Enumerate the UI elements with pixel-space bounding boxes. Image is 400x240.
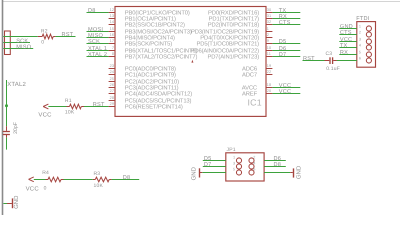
FTDI pin 2 xyxy=(359,31,372,37)
IC1 pin 12 PB0 xyxy=(109,8,190,16)
svg-text:8: 8 xyxy=(112,52,114,56)
svg-text:20: 20 xyxy=(267,89,272,93)
wire + net label SCK (IC left) xyxy=(87,39,109,45)
svg-text:27: 27 xyxy=(110,89,115,93)
wire + net label RST (right of R2) xyxy=(55,32,75,38)
svg-text:17: 17 xyxy=(110,39,115,43)
svg-text:3: 3 xyxy=(359,38,361,42)
supply VCC arrow (reset pullup) xyxy=(43,104,48,109)
wire + net label RX (FTDI) xyxy=(339,50,357,56)
svg-text:PD6(AIN0/OC0A/PCINT22): PD6(AIN0/OC0A/PCINT22) xyxy=(191,47,260,54)
svg-text:D8: D8 xyxy=(123,175,131,181)
value 0.1uF (C3) xyxy=(326,66,340,72)
IC1 pin 19 ADC6 xyxy=(242,64,272,72)
svg-text:D7: D7 xyxy=(279,52,287,58)
svg-text:1: 1 xyxy=(359,25,361,29)
wire + net label D8 (right of R3) xyxy=(112,175,140,181)
svg-text:VCC: VCC xyxy=(26,186,40,193)
IC1 pin 29 PC6 xyxy=(109,102,183,110)
IC1 pin 7 PB6 xyxy=(109,46,198,54)
svg-text:ADC6: ADC6 xyxy=(242,65,257,72)
svg-text:28: 28 xyxy=(110,96,115,100)
IC1 pin 14 PB2 xyxy=(109,20,185,28)
svg-text:20pF: 20pF xyxy=(13,122,19,134)
svg-text:7: 7 xyxy=(112,46,114,50)
ground GND (left of JP1) xyxy=(191,166,226,180)
svg-text:12: 12 xyxy=(110,8,115,12)
svg-text:C3: C3 xyxy=(326,51,333,57)
JP1 pin 3 xyxy=(233,162,242,169)
label R3 xyxy=(94,171,101,177)
svg-text:4: 4 xyxy=(359,44,361,48)
svg-text:PC4(ADC4/SDA/PCINT12): PC4(ADC4/SDA/PCINT12) xyxy=(125,90,192,97)
junction on XTAL2 wire xyxy=(5,104,8,107)
svg-text:9: 9 xyxy=(267,39,269,43)
IC1 pin 23 PC0 xyxy=(109,64,176,72)
svg-text:14: 14 xyxy=(110,20,115,24)
resistor R3 xyxy=(93,177,112,182)
FTDI pin 4 xyxy=(359,44,372,50)
svg-text:PB4(MISO/PCINT4): PB4(MISO/PCINT4) xyxy=(125,34,175,41)
wire RST net from ISP to R2 xyxy=(3,36,38,38)
JP1 pin 4 xyxy=(249,162,256,169)
svg-text:FTDI: FTDI xyxy=(356,16,369,22)
label R4 xyxy=(42,170,49,176)
svg-text:GND: GND xyxy=(13,195,20,209)
svg-text:11: 11 xyxy=(267,52,271,56)
svg-text:PC3(ADC3/PCINT11): PC3(ADC3/PCINT11) xyxy=(125,84,179,91)
svg-text:RST: RST xyxy=(303,56,315,62)
svg-text:PC5(ADC5/SCL/PCINT13): PC5(ADC5/SCL/PCINT13) xyxy=(125,97,192,104)
svg-text:ADC7: ADC7 xyxy=(242,71,257,78)
wire XTAL2 vertical xyxy=(6,80,8,126)
wire + net label MOSI (IC left) xyxy=(87,27,109,33)
IC1 pin 26 PC3 xyxy=(109,83,179,91)
wire + net label TX (FTDI) xyxy=(339,43,357,49)
svg-text:PD5(T1/OC0B/PCINT21): PD5(T1/OC0B/PCINT21) xyxy=(197,40,260,47)
svg-text:GND: GND xyxy=(191,166,198,180)
svg-text:23: 23 xyxy=(110,64,115,68)
JP1 pin 5 xyxy=(233,168,242,175)
svg-text:XTAL 2: XTAL 2 xyxy=(88,52,107,58)
svg-text:PD7(AIN1/PCINT23): PD7(AIN1/PCINT23) xyxy=(207,53,259,60)
capacitor C3 xyxy=(325,57,337,64)
net label XTAL2 xyxy=(7,81,26,88)
svg-text:10: 10 xyxy=(267,46,272,50)
svg-text:24: 24 xyxy=(110,70,115,74)
IC1 pin 20 AREF xyxy=(242,89,272,97)
wire + net label RST (to C3) xyxy=(303,56,325,62)
svg-text:D8: D8 xyxy=(274,162,282,168)
svg-text:PB3(MOSI/OC2A/PCINT3): PB3(MOSI/OC2A/PCINT3) xyxy=(125,28,192,35)
svg-text:D7: D7 xyxy=(204,162,212,168)
wire + net label XTAL 2 (IC left) xyxy=(87,52,109,58)
svg-text:PC2(ADC2/PCINT10): PC2(ADC2/PCINT10) xyxy=(125,78,179,85)
IC1 pin 13 PB1 xyxy=(109,14,176,22)
value 0 (R2) xyxy=(41,40,44,46)
svg-text:PC1(ADC1/PCINT9): PC1(ADC1/PCINT9) xyxy=(125,71,176,78)
wire C3 to FTDI pin 6 xyxy=(337,60,357,62)
svg-text:D8: D8 xyxy=(88,8,96,14)
svg-text:PD1(TXD/PCINT17): PD1(TXD/PCINT17) xyxy=(209,15,260,22)
resistor R1 xyxy=(67,104,85,109)
connector FTDI outline xyxy=(357,22,376,68)
wire + net label TX (IC right) xyxy=(272,8,300,14)
svg-text:PD4(T0/XCK/PCINT20): PD4(T0/XCK/PCINT20) xyxy=(200,34,259,41)
svg-text:13: 13 xyxy=(110,14,115,18)
wire from C2 down xyxy=(6,138,8,150)
connector JP1 outline xyxy=(226,153,264,181)
svg-text:MISO: MISO xyxy=(16,44,32,50)
IC1 pin 11 PD7 xyxy=(207,52,272,60)
svg-text:30: 30 xyxy=(267,8,272,12)
svg-text:PD2(INT0/PCINT18): PD2(INT0/PCINT18) xyxy=(208,21,259,28)
svg-text:RX: RX xyxy=(340,50,348,56)
svg-text:1: 1 xyxy=(267,27,269,31)
svg-text:PB6(XTAL1/TOSC1/PCINT6): PB6(XTAL1/TOSC1/PCINT6) xyxy=(125,47,198,54)
IC1 pin 9 PD5 xyxy=(197,39,273,47)
JP1 pin 2 xyxy=(249,156,256,163)
svg-text:R1: R1 xyxy=(65,98,72,104)
IC1 pin 10 PD6 xyxy=(191,46,273,54)
svg-text:2: 2 xyxy=(253,156,255,160)
wire + net label CTS (FTDI) xyxy=(339,30,357,36)
wire + net label D5 (IC right) xyxy=(272,39,300,45)
value 10K (R3) xyxy=(94,183,104,189)
svg-text:6: 6 xyxy=(253,168,255,172)
svg-text:32: 32 xyxy=(267,20,272,24)
supply VCC arrow (bottom) xyxy=(29,177,34,182)
svg-text:PD0(RXD/PCINT16): PD0(RXD/PCINT16) xyxy=(208,9,259,16)
wire + net label MISO (ISP side) xyxy=(3,44,33,50)
FTDI pin 6 xyxy=(359,57,372,63)
label VCC (reset pullup) xyxy=(38,112,52,119)
svg-text:10K: 10K xyxy=(94,183,104,189)
svg-text:PC6(RESET/PCINT14): PC6(RESET/PCINT14) xyxy=(125,103,183,110)
wire + net label MISO (IC left) xyxy=(87,33,109,39)
wire + net label VCC (FTDI) xyxy=(339,37,357,43)
svg-text:PB5(SCK/PCINT5): PB5(SCK/PCINT5) xyxy=(125,40,172,47)
label VCC (bottom) xyxy=(26,186,40,193)
value 20pF (rotated) xyxy=(13,122,19,134)
svg-text:19: 19 xyxy=(267,64,272,68)
label IC1 xyxy=(248,97,262,107)
svg-text:4: 4 xyxy=(253,162,255,166)
IC1 pin 28 PC5 xyxy=(109,96,192,104)
wire + net label D7 (IC right) xyxy=(272,52,300,58)
svg-text:2: 2 xyxy=(267,33,269,37)
svg-text:TX: TX xyxy=(340,43,348,49)
IC1 pin 30 PD0 xyxy=(208,8,272,16)
wire + net label XTAL 1 (IC left) xyxy=(87,46,109,52)
svg-text:25: 25 xyxy=(110,77,115,81)
wire + net label D8 (JP1 right) xyxy=(264,162,286,168)
svg-text:AREF: AREF xyxy=(242,90,258,97)
wire + net label D6 (JP1 right) xyxy=(264,156,286,162)
svg-text:6: 6 xyxy=(359,57,361,61)
label JP1 xyxy=(227,147,236,153)
svg-text:XTAL2: XTAL2 xyxy=(7,81,26,88)
IC1 pin 32 PD2 xyxy=(208,20,273,28)
svg-text:10K: 10K xyxy=(65,109,75,115)
IC1 pin 17 PB5 xyxy=(109,39,173,47)
JP1 pin 6 xyxy=(249,168,256,175)
IC1 pin 27 PC4 xyxy=(109,89,193,97)
wire + net label GND (FTDI) xyxy=(339,24,357,30)
svg-text:1: 1 xyxy=(233,156,235,160)
svg-text:R4: R4 xyxy=(42,170,49,176)
svg-text:R2: R2 xyxy=(41,29,48,35)
wire + net label CTS (IC right) xyxy=(272,20,300,26)
svg-text:22: 22 xyxy=(267,70,272,74)
svg-text:GND: GND xyxy=(295,165,302,179)
svg-text:0.1uF: 0.1uF xyxy=(326,66,340,72)
label C3 xyxy=(326,51,333,57)
IC1 pin 22 ADC7 xyxy=(242,70,272,78)
svg-text:26: 26 xyxy=(110,83,115,87)
svg-text:RST: RST xyxy=(93,102,105,108)
svg-text:PC0(ADC0/PCINT8): PC0(ADC0/PCINT8) xyxy=(125,65,176,72)
JP1 pin 1 xyxy=(233,156,242,163)
IC1 pin 1 PD3 xyxy=(191,27,272,35)
marker (small red triangle below PB7) xyxy=(191,60,193,63)
wire + net label SCK (ISP side) xyxy=(3,38,30,44)
svg-text:PB1(OC1A/PCINT1): PB1(OC1A/PCINT1) xyxy=(125,15,176,22)
svg-text:31: 31 xyxy=(267,14,272,18)
wire VCC to R1 xyxy=(48,106,66,108)
IC IC1 body outline xyxy=(115,7,266,117)
FTDI pin 5 xyxy=(359,51,372,57)
FTDI pin 1 xyxy=(359,25,372,31)
svg-text:R3: R3 xyxy=(94,171,101,177)
IC1 pin 8 PB7 xyxy=(109,52,198,60)
svg-text:D5: D5 xyxy=(279,39,287,45)
FTDI pin 3 xyxy=(359,38,372,44)
wire + net label D8 (IC left) xyxy=(87,8,109,14)
label R1 xyxy=(65,98,72,104)
IC1 pin 25 PC2 xyxy=(109,77,180,85)
value 0 (R4) xyxy=(44,185,47,191)
svg-text:3: 3 xyxy=(233,162,235,166)
wire + net label VCC (IC right) xyxy=(272,89,300,95)
svg-text:AVCC: AVCC xyxy=(242,84,257,91)
wire R4 to R3 xyxy=(64,179,93,181)
svg-text:SCK: SCK xyxy=(88,39,100,45)
label R2 xyxy=(41,29,48,35)
svg-text:PD3(INT1/OC2B/PCINT19): PD3(INT1/OC2B/PCINT19) xyxy=(191,28,259,35)
svg-text:IC1: IC1 xyxy=(248,97,262,107)
wire + net label D5 (JP1 left) xyxy=(203,156,226,162)
value 10K (R1) xyxy=(65,109,75,115)
IC1 pin 15 PB3 xyxy=(109,27,192,35)
IC1 pin 24 PC1 xyxy=(109,70,176,78)
wire VCC to R4 xyxy=(34,179,46,181)
svg-text:RST: RST xyxy=(62,32,74,38)
label FTDI xyxy=(356,16,369,22)
svg-text:18: 18 xyxy=(267,83,272,87)
svg-text:5: 5 xyxy=(359,51,361,55)
svg-text:16: 16 xyxy=(110,33,115,37)
wire + net label RX (IC right) xyxy=(272,14,300,20)
svg-text:0: 0 xyxy=(41,40,44,46)
svg-text:5: 5 xyxy=(233,168,235,172)
svg-text:0: 0 xyxy=(44,185,47,191)
svg-text:PB7(XTAL2/TOSC2/PCINT7): PB7(XTAL2/TOSC2/PCINT7) xyxy=(125,53,198,60)
wire + net label D7 (JP1 left) xyxy=(203,162,226,168)
svg-text:2: 2 xyxy=(359,31,361,35)
svg-text:CTS: CTS xyxy=(340,30,352,36)
wire + net label D6 (IC right) xyxy=(272,46,300,52)
ground GND (right of JP1) xyxy=(264,165,302,179)
svg-text:PB2(SS/OC1B/PCINT2): PB2(SS/OC1B/PCINT2) xyxy=(125,21,185,28)
wire + net label RST (R1 to IC1 pin 29) xyxy=(84,102,109,108)
resistor R2 xyxy=(38,34,56,39)
wire + net label VCC (IC right) xyxy=(272,83,300,89)
ground GND (bottom left) xyxy=(3,195,20,209)
connector SV1 ISP header (partial, cut off at left edge) xyxy=(5,31,11,55)
svg-text:JP1: JP1 xyxy=(227,147,236,153)
svg-text:PB0(ICP1/CLKO/PCINT0): PB0(ICP1/CLKO/PCINT0) xyxy=(125,9,190,16)
svg-text:VCC: VCC xyxy=(279,89,291,95)
resistor R4 xyxy=(46,177,64,182)
svg-text:15: 15 xyxy=(110,27,115,31)
IC1 pin 2 PD4 xyxy=(200,33,272,41)
svg-text:29: 29 xyxy=(110,102,115,106)
svg-text:CTS: CTS xyxy=(279,20,291,26)
capacitor C2 (crystal load cap) xyxy=(3,126,10,137)
IC1 pin 18 AVCC xyxy=(242,83,273,91)
IC1 pin 16 PB4 xyxy=(109,33,175,41)
IC1 pin 31 PD1 xyxy=(209,14,273,22)
svg-text:VCC: VCC xyxy=(38,112,52,119)
